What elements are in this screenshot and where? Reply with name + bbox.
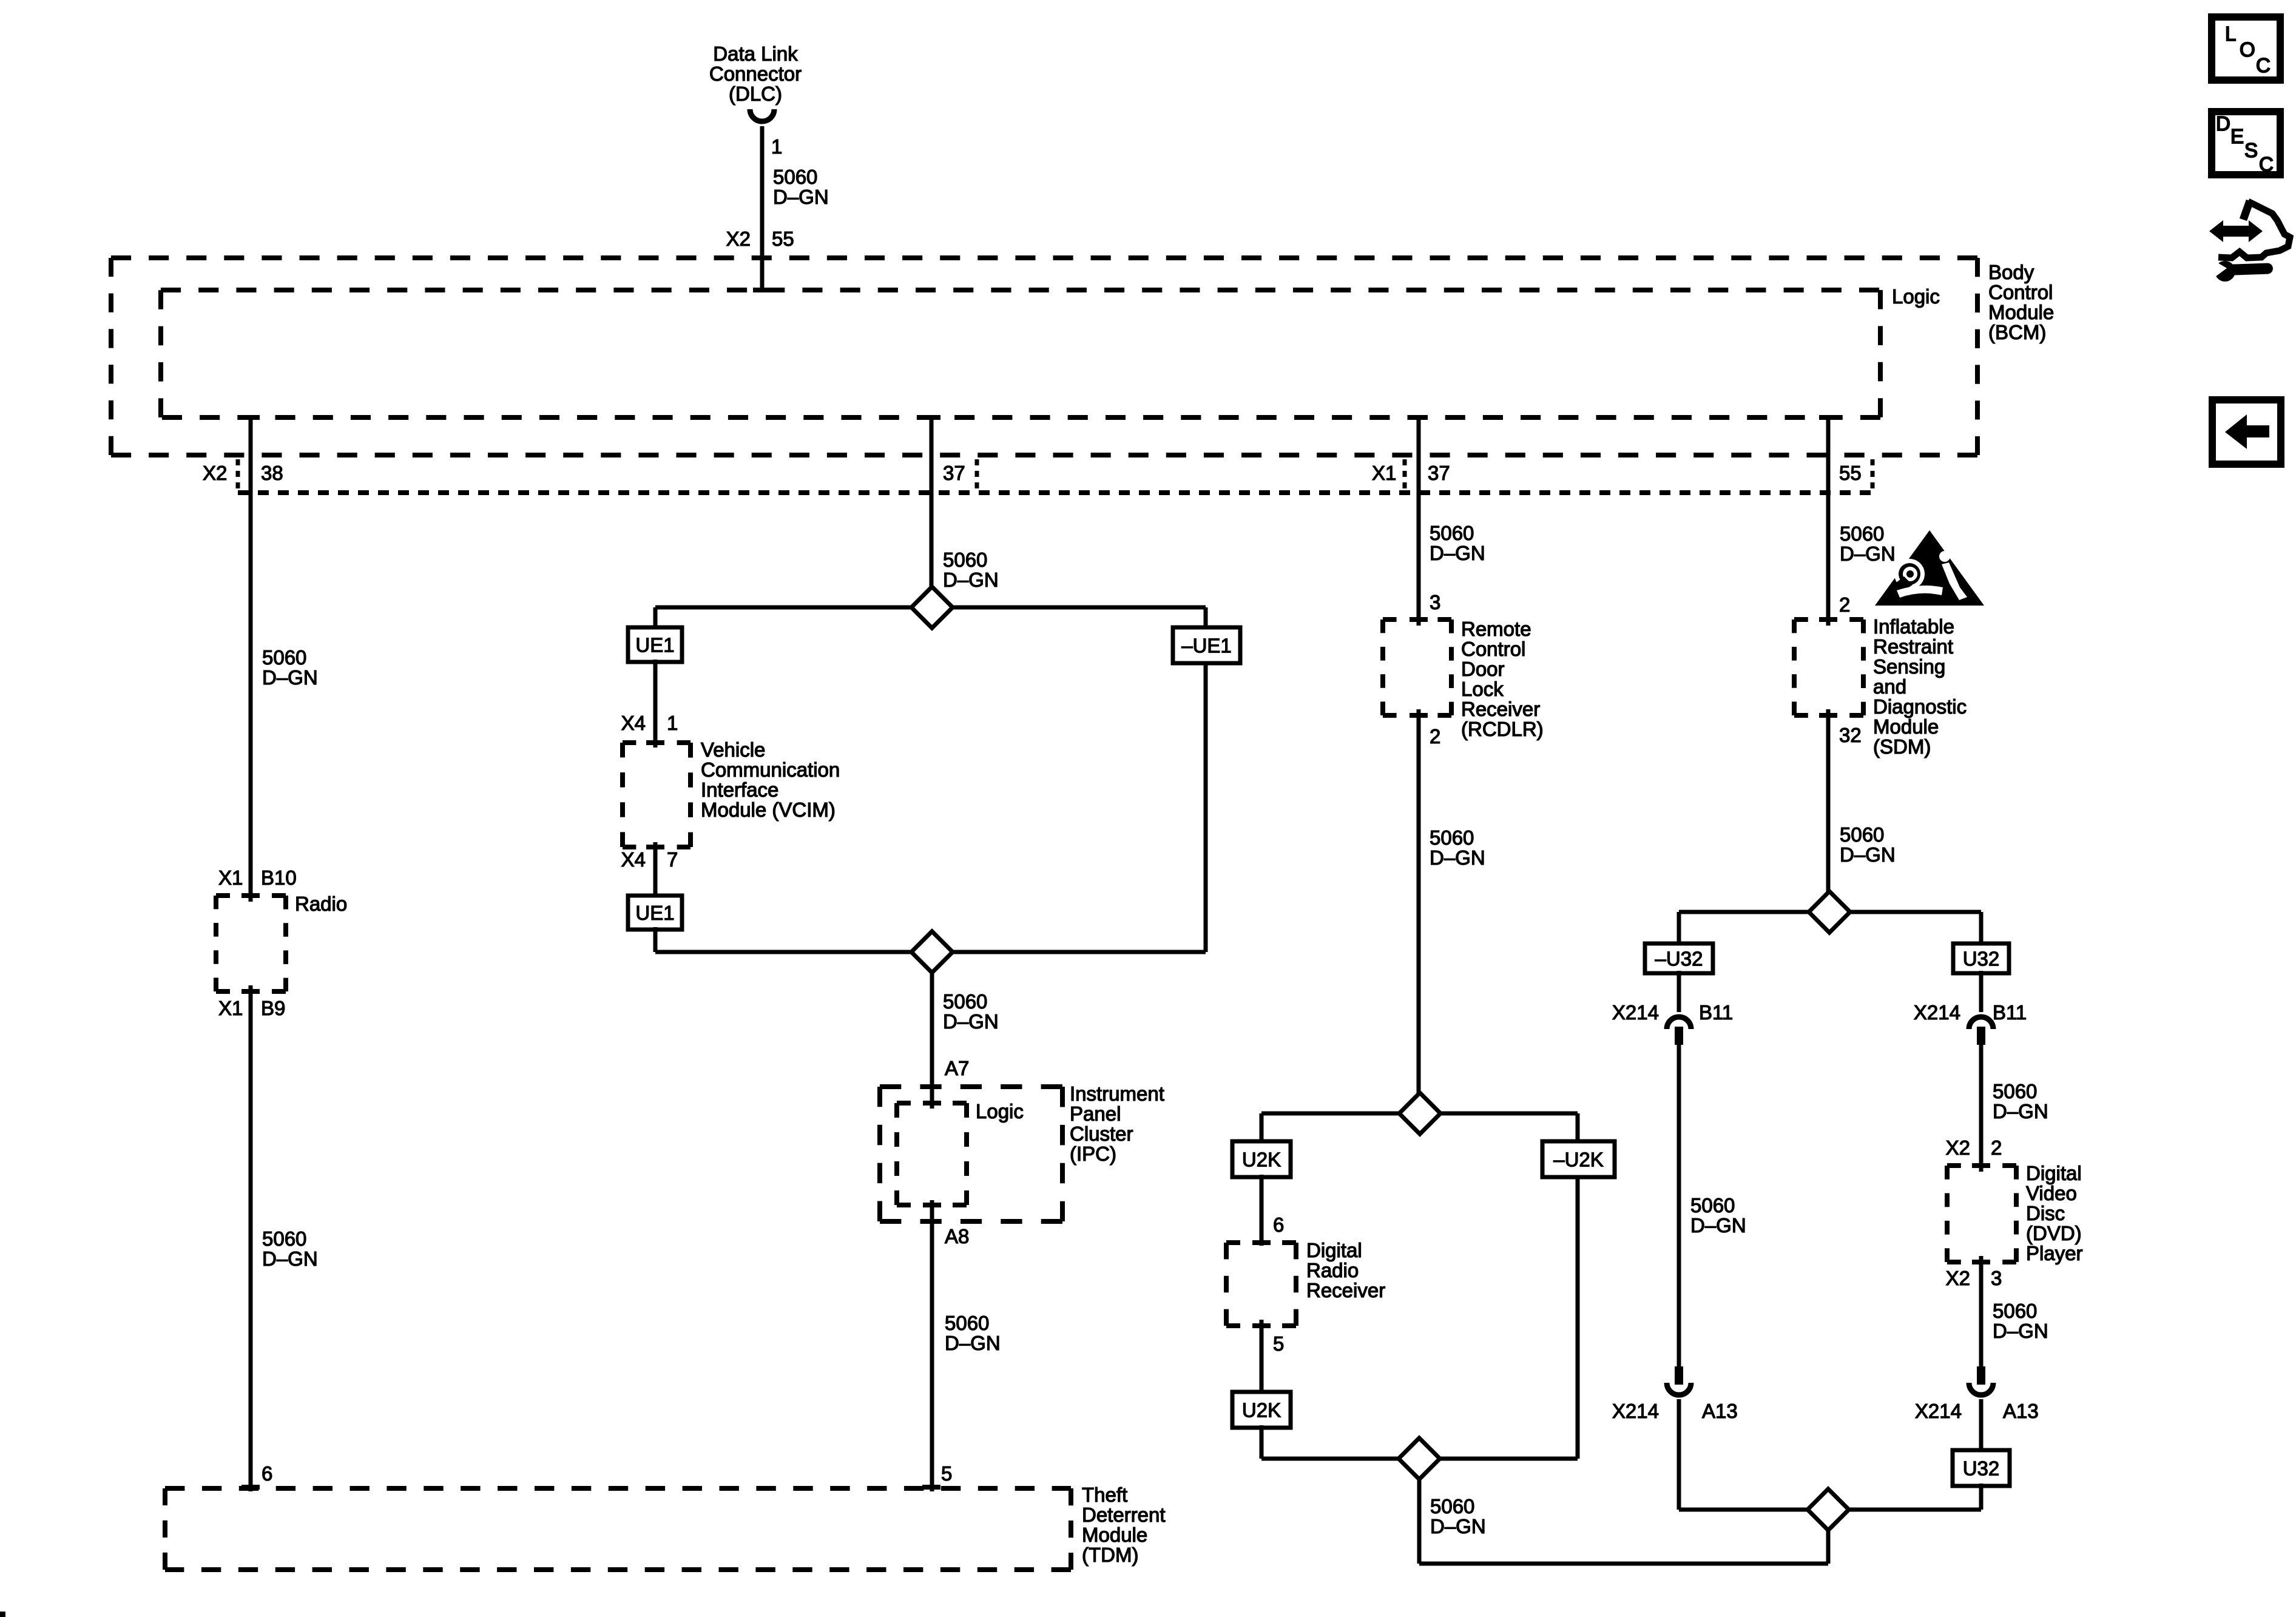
svg-text:5: 5 xyxy=(941,1462,952,1485)
svg-text:5: 5 xyxy=(1273,1332,1284,1355)
svg-text:UE1: UE1 xyxy=(635,634,674,657)
node BCM connector strip dotted line xyxy=(238,490,1872,495)
net -UE1 box xyxy=(1173,627,1240,663)
net UE1 box upper xyxy=(628,627,682,662)
tick BCM logic top at DLC wire xyxy=(753,288,771,292)
svg-text:Video: Video xyxy=(2026,1182,2077,1204)
svg-text:D–GN: D–GN xyxy=(1430,542,1485,564)
svg-text:5060: 5060 xyxy=(1840,522,1884,545)
wire U32 lower to bottom line xyxy=(1979,1484,1984,1510)
svg-text:Radio: Radio xyxy=(295,893,347,915)
svg-text:55: 55 xyxy=(772,228,794,250)
wire VCIM loop bottom line xyxy=(655,950,1206,954)
icon DESC box xyxy=(2212,112,2280,175)
svg-text:Communication: Communication xyxy=(701,758,840,781)
wire W3 BCM to RCDLR xyxy=(1417,417,1421,626)
wire RCDLR to splice S3 xyxy=(1417,709,1421,1113)
svg-text:U32: U32 xyxy=(1963,1457,2000,1480)
svg-text:Receiver: Receiver xyxy=(1306,1279,1385,1301)
splice S1 diamond xyxy=(911,587,953,628)
svg-text:X4: X4 xyxy=(621,848,646,871)
svg-text:Cluster: Cluster xyxy=(1070,1122,1133,1145)
splice S4 diamond xyxy=(1399,1438,1440,1479)
icon back arrow box xyxy=(2212,400,2281,464)
svg-text:Data Link: Data Link xyxy=(713,42,798,65)
wire S4 down to bottom run xyxy=(1417,1479,1422,1564)
wire right leg to DVD xyxy=(1979,1045,1984,1172)
svg-text:5060: 5060 xyxy=(1430,826,1474,849)
wire VCIM loop right upper xyxy=(1204,607,1208,630)
svg-text:7: 7 xyxy=(667,848,678,871)
svg-text:A8: A8 xyxy=(945,1225,969,1247)
wire W2 BCM to splice S1 xyxy=(930,417,934,607)
svg-text:5060: 5060 xyxy=(262,646,306,669)
svg-text:5060: 5060 xyxy=(1430,1495,1474,1517)
svg-text:B11: B11 xyxy=(1699,1001,1733,1024)
svg-text:B9: B9 xyxy=(261,997,285,1019)
svg-text:–UE1: –UE1 xyxy=(1181,635,1232,657)
svg-text:Lock: Lock xyxy=(1461,678,1504,700)
net UE1 box lower xyxy=(628,896,682,930)
wire VCIM to UE1 lower xyxy=(653,842,658,896)
wire A13 right to U32 lower xyxy=(1979,1399,1984,1451)
svg-text:Deterrent: Deterrent xyxy=(1082,1504,1166,1526)
svg-text:–U2K: –U2K xyxy=(1553,1149,1604,1171)
svg-text:Theft: Theft xyxy=(1082,1484,1127,1506)
wire bottom run up to S6 xyxy=(1826,1510,1831,1564)
svg-text:D: D xyxy=(2216,112,2230,135)
svg-text:(BCM): (BCM) xyxy=(1988,321,2046,343)
wire UE1 to VCIM xyxy=(653,660,658,748)
svg-text:55: 55 xyxy=(1839,462,1862,484)
svg-text:–U32: –U32 xyxy=(1655,948,1703,970)
separator at X2 38 xyxy=(236,459,240,489)
svg-text:5060: 5060 xyxy=(1840,823,1884,846)
svg-text:Control: Control xyxy=(1461,638,1525,660)
wire DLC pin1 to BCM xyxy=(760,126,765,292)
svg-text:Digital: Digital xyxy=(2026,1162,2082,1184)
svg-text:X1: X1 xyxy=(218,866,243,889)
svg-text:Inflatable: Inflatable xyxy=(1873,615,1954,638)
svg-text:3: 3 xyxy=(1991,1267,2002,1289)
svg-text:D–GN: D–GN xyxy=(1690,1214,1746,1237)
svg-text:D–GN: D–GN xyxy=(1430,846,1485,869)
svg-text:X214: X214 xyxy=(1914,1001,1960,1024)
svg-text:C: C xyxy=(2259,153,2274,175)
module Radio dashed box xyxy=(216,893,286,898)
tick IPC logic top xyxy=(923,1101,941,1106)
icon harness outline xyxy=(2243,201,2250,220)
wire VCIM loop left upper xyxy=(653,607,658,630)
svg-text:Module (VCIM): Module (VCIM) xyxy=(701,798,836,821)
svg-text:Diagnostic: Diagnostic xyxy=(1873,695,1967,718)
module IPC logic inner dashed box xyxy=(897,1101,967,1106)
svg-text:Player: Player xyxy=(2026,1242,2083,1264)
svg-text:Control: Control xyxy=(1988,281,2053,303)
wire UE1 lower to loop bottom xyxy=(653,927,658,952)
net U32 box right xyxy=(1953,944,2009,973)
tick SDM bottom xyxy=(1819,713,1837,718)
tick VCIM bottom xyxy=(646,845,664,849)
svg-text:and: and xyxy=(1873,675,1906,698)
connector X214 A13 right xyxy=(1977,1366,1985,1385)
svg-text:5060: 5060 xyxy=(945,1312,989,1334)
wire U32 loop left upper xyxy=(1677,912,1681,946)
svg-text:D–GN: D–GN xyxy=(943,1010,999,1033)
svg-text:D–GN: D–GN xyxy=(1993,1100,2048,1122)
wire W1 BCM to Radio xyxy=(249,417,253,902)
wire DRR to U2K lower xyxy=(1260,1320,1264,1394)
module IPC outer dashed box xyxy=(880,1084,1062,1089)
svg-text:(RCDLR): (RCDLR) xyxy=(1461,718,1544,740)
svg-text:5060: 5060 xyxy=(1690,1194,1735,1217)
splice S2 diamond xyxy=(911,931,953,973)
tick DRR top xyxy=(1252,1240,1271,1245)
tick Radio top xyxy=(241,893,260,898)
connector X214 B11 right xyxy=(1969,1017,1993,1029)
artifact dot bottom left xyxy=(0,1612,5,1617)
wire left leg A13 to bottom xyxy=(1677,1399,1681,1510)
wire U32 loop right upper xyxy=(1979,912,1984,946)
wire U2K to DRR xyxy=(1260,1175,1264,1246)
wire -UE1 right side xyxy=(1204,661,1208,952)
svg-text:U2K: U2K xyxy=(1242,1399,1281,1422)
svg-text:X1: X1 xyxy=(218,997,243,1019)
net -U2K box xyxy=(1542,1141,1615,1177)
module SDM dashed box xyxy=(1794,617,1863,622)
svg-text:D–GN: D–GN xyxy=(773,186,829,208)
tick DVD top xyxy=(1972,1163,1990,1168)
svg-text:5060: 5060 xyxy=(943,990,987,1013)
wire W1 Radio to TDM xyxy=(249,985,253,1491)
separator at 55 xyxy=(1871,459,1875,493)
wire W4 BCM to SDM xyxy=(1826,417,1831,626)
svg-text:UE1: UE1 xyxy=(635,902,674,924)
ticks BCM logic bottom at drop wires xyxy=(241,415,260,420)
svg-text:Logic: Logic xyxy=(1892,285,1940,308)
connector X214 B11 left xyxy=(1667,1017,1691,1029)
svg-text:38: 38 xyxy=(261,462,283,484)
svg-text:E: E xyxy=(2230,125,2244,147)
svg-text:1: 1 xyxy=(771,135,782,158)
svg-text:2: 2 xyxy=(1991,1136,2002,1159)
svg-text:Module: Module xyxy=(1988,301,2054,323)
svg-text:Module: Module xyxy=(1082,1524,1147,1546)
svg-text:Module: Module xyxy=(1873,715,1939,738)
svg-text:32: 32 xyxy=(1839,724,1862,746)
symbol SRS warning triangle xyxy=(1875,530,1984,606)
wire SDM to splice S5 xyxy=(1826,709,1831,912)
svg-text:A13: A13 xyxy=(2003,1400,2039,1422)
svg-text:5060: 5060 xyxy=(1430,522,1474,544)
svg-text:Digital: Digital xyxy=(1306,1239,1362,1261)
svg-text:6: 6 xyxy=(262,1462,272,1485)
tick TDM top pin5 xyxy=(922,1485,940,1490)
wire U2K loop bottom line xyxy=(1261,1457,1578,1461)
tick RCDLR bottom xyxy=(1410,713,1428,718)
wire -U2K right side xyxy=(1576,1175,1580,1459)
svg-text:A13: A13 xyxy=(1702,1400,1738,1422)
net U32 box lower xyxy=(1953,1450,2010,1486)
wire U2K loop right upper xyxy=(1576,1113,1580,1144)
svg-text:Disc: Disc xyxy=(2026,1202,2065,1224)
tick RCDLR top xyxy=(1410,617,1428,622)
svg-text:X2: X2 xyxy=(1946,1267,1970,1289)
svg-text:X2: X2 xyxy=(726,228,751,250)
svg-text:D–GN: D–GN xyxy=(262,666,318,689)
module VCIM dashed box xyxy=(623,740,690,745)
svg-text:(SDM): (SDM) xyxy=(1873,735,1931,758)
wire U2K lower to loop bottom xyxy=(1260,1425,1264,1459)
svg-text:Logic: Logic xyxy=(976,1100,1024,1122)
svg-text:X2: X2 xyxy=(203,462,227,484)
module BCM outer dashed box xyxy=(111,255,1977,260)
svg-text:6: 6 xyxy=(1273,1214,1284,1236)
svg-text:Sensing: Sensing xyxy=(1873,655,1945,678)
net U2K box lower xyxy=(1232,1392,1291,1428)
splice S3 diamond xyxy=(1399,1093,1440,1134)
svg-text:U32: U32 xyxy=(1963,948,2000,970)
tick VCIM top xyxy=(646,740,664,745)
tick IPC logic bottom xyxy=(923,1203,941,1207)
wire U32 loop top line xyxy=(1679,910,1981,914)
svg-text:1: 1 xyxy=(667,712,678,734)
wire U2K loop left upper xyxy=(1260,1113,1264,1144)
svg-text:X214: X214 xyxy=(1612,1400,1659,1422)
module DVD dashed box xyxy=(1947,1163,2016,1168)
svg-text:(DLC): (DLC) xyxy=(729,83,782,105)
svg-text:C: C xyxy=(2256,54,2271,76)
net U2K box upper xyxy=(1232,1141,1291,1177)
svg-text:X1: X1 xyxy=(1372,462,1396,484)
wire DVD to A13 right xyxy=(1979,1256,1984,1366)
svg-text:B10: B10 xyxy=(261,866,297,889)
connector X214 A13 left xyxy=(1675,1366,1683,1385)
svg-text:(TDM): (TDM) xyxy=(1082,1544,1138,1566)
module RCDLR dashed box xyxy=(1383,617,1451,622)
svg-text:(IPC): (IPC) xyxy=(1070,1143,1116,1165)
svg-text:X214: X214 xyxy=(1612,1001,1659,1024)
svg-text:37: 37 xyxy=(943,462,965,484)
svg-text:2: 2 xyxy=(1839,593,1850,616)
wire bottom left horizontal to S6 xyxy=(1679,1508,1981,1512)
svg-text:D–GN: D–GN xyxy=(943,569,999,591)
net -U32 box xyxy=(1645,944,1713,973)
svg-text:3: 3 xyxy=(1430,591,1440,613)
svg-text:D–GN: D–GN xyxy=(945,1332,1001,1354)
svg-text:Door: Door xyxy=(1461,658,1505,680)
svg-text:X2: X2 xyxy=(1946,1136,1970,1159)
wire S2 to IPC xyxy=(930,973,934,1109)
splice S6 diamond xyxy=(1808,1489,1849,1530)
svg-text:(DVD): (DVD) xyxy=(2026,1222,2082,1244)
splice S5 diamond xyxy=(1809,891,1850,933)
svg-text:A7: A7 xyxy=(945,1057,969,1079)
icon LOC box xyxy=(2212,17,2280,80)
svg-text:Panel: Panel xyxy=(1070,1102,1121,1125)
svg-text:Remote: Remote xyxy=(1461,618,1531,640)
svg-text:D–GN: D–GN xyxy=(1993,1320,2048,1342)
svg-text:Receiver: Receiver xyxy=(1461,698,1540,720)
wire U2K loop top line xyxy=(1261,1112,1578,1116)
icon harness double arrow xyxy=(2209,220,2263,242)
svg-text:S: S xyxy=(2244,139,2258,161)
wire U32 right leg B11 xyxy=(1979,971,1984,1012)
svg-text:Connector: Connector xyxy=(709,62,802,85)
svg-text:D–GN: D–GN xyxy=(1840,843,1896,866)
icon wrench xyxy=(2210,258,2273,282)
separator at 37 xyxy=(975,459,979,489)
svg-text:Instrument: Instrument xyxy=(1070,1082,1164,1105)
wire VCIM loop top line xyxy=(655,606,1206,610)
module BCM logic inner dashed box xyxy=(161,288,1880,292)
tick SDM top xyxy=(1819,617,1837,622)
svg-text:5060: 5060 xyxy=(1993,1080,2037,1102)
svg-text:Body: Body xyxy=(1988,261,2034,283)
module DRR dashed box xyxy=(1226,1240,1296,1245)
svg-text:5060: 5060 xyxy=(262,1227,306,1250)
separator at X1 37 xyxy=(1403,459,1407,489)
svg-text:X4: X4 xyxy=(621,712,646,734)
svg-text:Restraint: Restraint xyxy=(1873,635,1953,658)
svg-text:U2K: U2K xyxy=(1242,1149,1281,1171)
tick Radio bottom xyxy=(241,989,260,994)
wire bottom run horizontal xyxy=(1419,1562,1828,1566)
connector DLC cup symbol xyxy=(750,109,774,121)
svg-text:D–GN: D–GN xyxy=(1840,542,1896,565)
svg-text:5060: 5060 xyxy=(943,549,987,571)
svg-text:Interface: Interface xyxy=(701,778,778,801)
wire IPC to TDM xyxy=(930,1200,934,1491)
module TDM dashed box xyxy=(165,1486,1071,1491)
svg-text:Vehicle: Vehicle xyxy=(701,738,765,761)
svg-text:Radio: Radio xyxy=(1306,1259,1359,1281)
wire left leg B11 to A13 xyxy=(1677,1045,1681,1366)
svg-text:D–GN: D–GN xyxy=(262,1247,318,1270)
svg-text:D–GN: D–GN xyxy=(1430,1515,1486,1538)
wire -U32 to X214 B11 xyxy=(1677,971,1681,1012)
svg-text:5060: 5060 xyxy=(1993,1300,2037,1322)
svg-text:37: 37 xyxy=(1428,462,1450,484)
svg-text:L: L xyxy=(2225,22,2236,45)
tick DRR bottom xyxy=(1252,1323,1271,1328)
tick TDM top pin6 xyxy=(241,1485,260,1490)
svg-text:O: O xyxy=(2240,38,2255,61)
svg-text:2: 2 xyxy=(1430,725,1440,748)
svg-text:B11: B11 xyxy=(1993,1001,2027,1024)
svg-text:5060: 5060 xyxy=(773,166,817,188)
tick DVD bottom xyxy=(1972,1260,1990,1264)
svg-text:X214: X214 xyxy=(1915,1400,1962,1422)
